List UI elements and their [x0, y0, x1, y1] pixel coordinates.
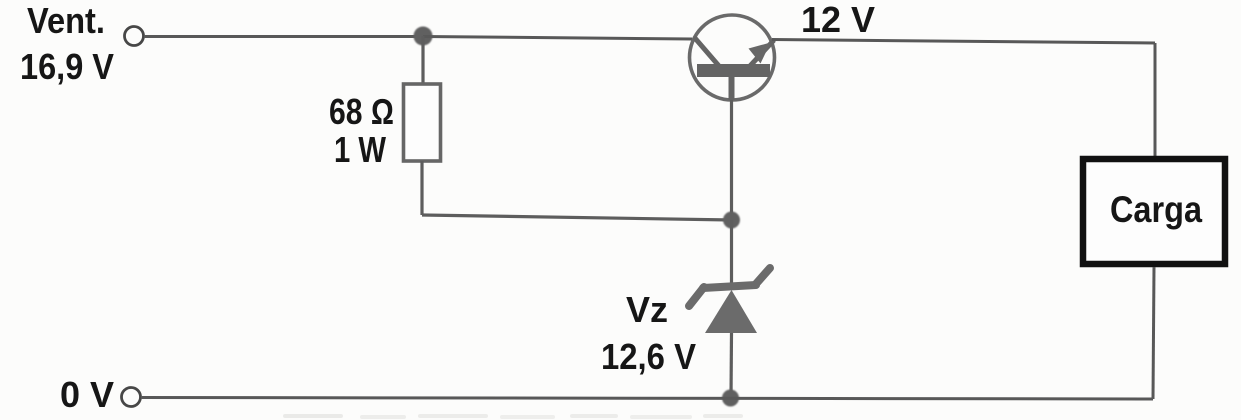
terminal 0 V [122, 388, 141, 407]
svg-text:1 W: 1 W [334, 129, 386, 170]
terminal Vent. input [125, 27, 144, 46]
wire base node to zener cathode [730, 220, 733, 286]
faint cropped caption at bottom edge [283, 414, 743, 419]
wire zener anode to bottom node [729, 333, 733, 398]
svg-text:16,9 V: 16,9 V [20, 46, 114, 87]
svg-text:Carga: Carga [1110, 189, 1202, 230]
wire bottom rail [141, 398, 1153, 400]
wire from resistor bottom to base node [422, 215, 732, 220]
zener diode Vz [689, 268, 770, 333]
wire top from input terminal to resistor-top junction [144, 35, 423, 38]
svg-text:0 V: 0 V [60, 374, 114, 415]
svg-text:12 V: 12 V [801, 0, 875, 40]
wire resistor top lead [421, 36, 424, 84]
svg-text:12,6 V: 12,6 V [601, 336, 696, 377]
wire top from junction to transistor collector [423, 37, 692, 40]
wire from load bottom to bottom rail [1153, 267, 1154, 399]
svg-text:Vz: Vz [626, 289, 668, 330]
transistor Q1 [690, 15, 775, 100]
wire right vertical down to load [1154, 43, 1157, 157]
svg-text:Vent.: Vent. [27, 0, 105, 41]
node junction at resistor top [414, 27, 433, 46]
load box Carga [1083, 159, 1225, 264]
wire from transistor emitter to right corner [772, 40, 1155, 44]
svg-text:68 Ω: 68 Ω [329, 91, 394, 132]
node junction bottom rail [722, 390, 739, 407]
node junction base / zener cathode [723, 212, 740, 229]
resistor 68 ohm 1 W [404, 84, 441, 161]
wire transistor base to base node [730, 100, 733, 221]
wire resistor bottom lead [420, 161, 423, 215]
